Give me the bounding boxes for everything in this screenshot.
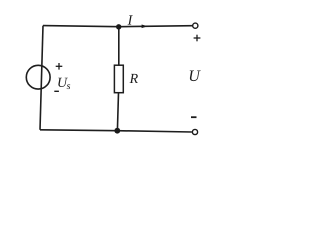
label Us [58,78,68,87]
wire left (source branch) [40,26,43,130]
wire top (left segment, Us+ to node, with slight sag) [43,26,193,27]
current arrow I on top wire [142,25,148,29]
label R [130,74,138,83]
node junction dot bottom [114,128,120,134]
wire resistor branch bottom [117,93,118,131]
terminal top right (open circle) [193,23,198,28]
wire resistor branch top [118,27,120,66]
minus sign of source polarity [54,90,59,92]
label U (output voltage) [190,71,201,82]
label I [128,15,133,24]
wire bottom [40,130,192,132]
voltage source Us (circle) [26,65,50,89]
plus sign at output terminal [194,35,201,42]
minus sign at output terminal [191,116,197,118]
node junction dot top [116,24,121,29]
plus sign of source polarity [56,63,63,70]
terminal bottom right (open circle) [192,129,197,134]
resistor R (rectangle) [114,65,123,93]
